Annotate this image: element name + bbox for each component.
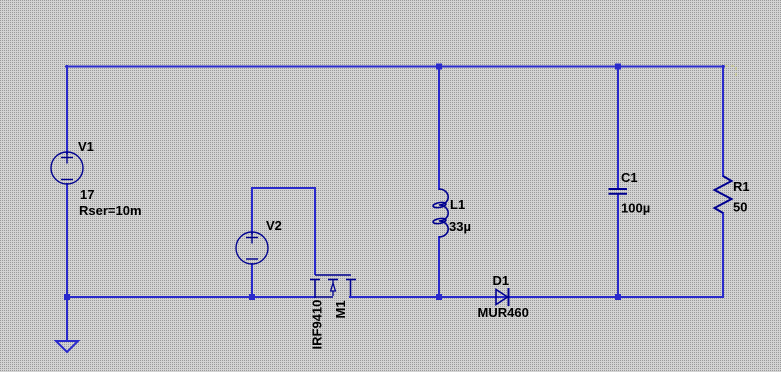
svg-text:MUR460: MUR460 xyxy=(478,305,529,320)
wire V2 bottom lead xyxy=(251,264,253,297)
svg-text:33µ: 33µ xyxy=(449,219,471,234)
wire bottom rail right segment xyxy=(350,296,723,298)
wire to ground xyxy=(66,297,68,341)
svg-text:IRF9410: IRF9410 xyxy=(310,300,325,350)
wire left vertical lower (V1 to bottom rail) xyxy=(66,184,68,297)
svg-text:R1: R1 xyxy=(733,179,750,194)
wire bottom rail left segment xyxy=(67,296,315,298)
capacitor C1 xyxy=(609,189,628,194)
voltage source V1 xyxy=(51,152,83,185)
svg-text:100µ: 100µ xyxy=(621,201,650,216)
wire top rail xyxy=(66,66,724,68)
junction bottom rail at V1/ground xyxy=(64,294,70,300)
wire V2 top lead xyxy=(251,188,253,233)
wire right vertical upper (top rail to R1) xyxy=(722,66,724,176)
wire C1 top lead xyxy=(617,66,619,189)
wire left vertical upper (top rail to V1) xyxy=(66,66,68,153)
wire V2 top horizontal xyxy=(252,187,315,189)
svg-text:Rser=10m: Rser=10m xyxy=(79,203,142,218)
svg-text:V1: V1 xyxy=(78,139,94,154)
svg-text:50: 50 xyxy=(733,200,747,215)
svg-text:17: 17 xyxy=(80,187,94,202)
wire right vertical lower (R1 to bottom rail) xyxy=(722,213,724,297)
inductor L1 xyxy=(433,189,449,237)
svg-text:D1: D1 xyxy=(493,273,510,288)
wire gate vertical xyxy=(314,188,316,274)
svg-text:M1: M1 xyxy=(333,300,348,318)
highlight artifact near top-right corner xyxy=(725,66,737,78)
svg-text:C1: C1 xyxy=(621,170,638,185)
ground xyxy=(56,341,78,352)
wire C1 bottom lead xyxy=(617,194,619,297)
junction bottom rail at V2 xyxy=(249,294,255,300)
junction bottom rail at C1 xyxy=(615,294,621,300)
wire L1 bottom lead xyxy=(438,237,440,297)
diode D1 xyxy=(496,288,509,306)
transistor M1 (PMOS) xyxy=(310,275,356,297)
junction bottom rail at L1 xyxy=(436,294,442,300)
junction top rail at L1 xyxy=(436,64,442,70)
voltage source V2 xyxy=(236,232,268,265)
svg-text:V2: V2 xyxy=(266,218,282,233)
svg-text:L1: L1 xyxy=(450,197,465,212)
wire L1 top lead xyxy=(438,66,440,189)
resistor R1 xyxy=(715,176,732,213)
junction top rail at C1 xyxy=(615,64,621,70)
